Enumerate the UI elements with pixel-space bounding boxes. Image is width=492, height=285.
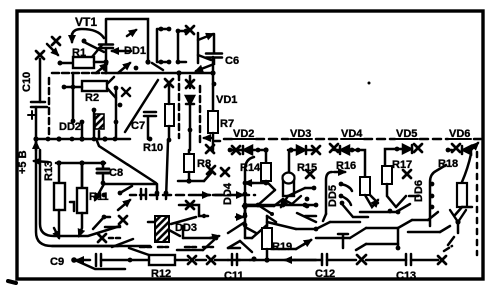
svg-text:DD2: DD2: [59, 121, 81, 133]
svg-text:C13: C13: [396, 270, 416, 282]
svg-text:C9: C9: [50, 256, 64, 268]
svg-text:R13: R13: [43, 161, 55, 181]
svg-text:VD5: VD5: [396, 128, 417, 140]
svg-text:R11: R11: [89, 191, 109, 203]
svg-text:DD1: DD1: [124, 45, 146, 57]
svg-text:C12: C12: [315, 268, 335, 280]
svg-text:DD4: DD4: [222, 182, 234, 205]
svg-text:R15: R15: [297, 162, 317, 174]
svg-text:VT1: VT1: [75, 15, 97, 29]
svg-text:C10: C10: [21, 72, 33, 92]
svg-text:C11: C11: [224, 270, 244, 282]
svg-text:DD5: DD5: [327, 185, 339, 207]
svg-text:R17: R17: [392, 159, 412, 171]
svg-text:+5 В: +5 В: [17, 150, 29, 174]
svg-text:R14: R14: [240, 162, 261, 174]
svg-text:DD6: DD6: [413, 180, 425, 202]
svg-text:R10: R10: [143, 142, 163, 154]
svg-text:R1: R1: [72, 47, 86, 59]
svg-text:DD3: DD3: [175, 222, 197, 234]
svg-text:R19: R19: [272, 241, 292, 253]
svg-text:C6: C6: [225, 55, 239, 67]
svg-text:R16: R16: [336, 160, 356, 172]
svg-text:VD3: VD3: [290, 128, 311, 140]
svg-text:R2: R2: [85, 92, 99, 104]
svg-text:R12: R12: [151, 268, 171, 280]
svg-text:R8: R8: [197, 158, 211, 170]
svg-text:VD1: VD1: [216, 94, 237, 106]
svg-text:C7: C7: [131, 120, 145, 132]
svg-text:VD6: VD6: [449, 128, 470, 140]
svg-text:C8: C8: [109, 167, 123, 179]
svg-text:VD4: VD4: [341, 128, 363, 140]
svg-text:R7: R7: [220, 118, 234, 130]
svg-text:VD2: VD2: [233, 128, 254, 140]
svg-text:R18: R18: [438, 158, 458, 170]
